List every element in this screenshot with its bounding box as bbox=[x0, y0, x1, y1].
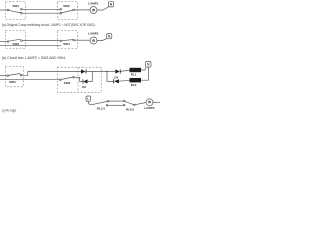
svg-text:(a) Original 2-way switching c: (a) Original 2-way switching circuit. LA… bbox=[2, 23, 96, 27]
svg-text:D2: D2 bbox=[82, 85, 86, 89]
svg-text:RL1/1: RL1/1 bbox=[97, 106, 106, 110]
svg-text:SW6: SW6 bbox=[64, 81, 71, 85]
svg-text:(c) RL logic: (c) RL logic bbox=[2, 109, 16, 113]
svg-text:LAMP2: LAMP2 bbox=[88, 32, 98, 36]
svg-text:SW3: SW3 bbox=[12, 42, 19, 46]
svg-text:RL2: RL2 bbox=[131, 83, 137, 87]
svg-text:LAMP1: LAMP1 bbox=[88, 1, 98, 5]
svg-text:SW4: SW4 bbox=[63, 42, 70, 46]
svg-text:LAMP3: LAMP3 bbox=[144, 106, 154, 110]
svg-text:(b) Circuit two. LAMP2 = SW3: (b) Circuit two. LAMP2 = SW3 AND SW4. bbox=[2, 56, 66, 60]
svg-text:SW1: SW1 bbox=[12, 4, 19, 8]
svg-text:SW5: SW5 bbox=[9, 80, 16, 84]
svg-text:RL2/1: RL2/1 bbox=[126, 107, 135, 111]
svg-text:RL1: RL1 bbox=[131, 73, 137, 77]
svg-text:D4: D4 bbox=[114, 75, 118, 79]
svg-text:L: L bbox=[87, 97, 89, 101]
svg-text:SW2: SW2 bbox=[63, 4, 70, 8]
